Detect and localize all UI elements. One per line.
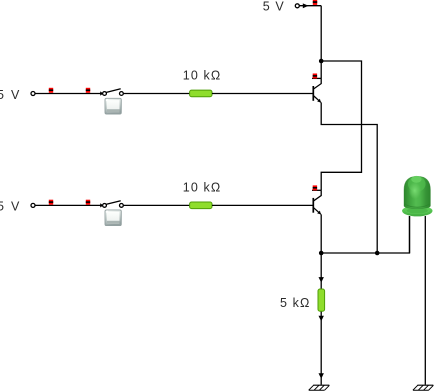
ground G1 bbox=[309, 385, 330, 390]
bottom rail wire bbox=[321, 216, 409, 253]
pin voltage indicator (red) B2 bbox=[86, 200, 90, 205]
Q1 collector pin stub bbox=[312, 77, 321, 79]
node junction bottom-left (dot) bbox=[319, 251, 324, 256]
switch S1 bbox=[103, 89, 124, 96]
wire: R1 to Q1 base bbox=[212, 93, 313, 95]
wire: top supply down to Q1 collector bbox=[320, 6, 322, 79]
ground G2 (LED cathode) bbox=[413, 385, 434, 390]
svg-text:5V: 5V bbox=[0, 200, 20, 214]
current arrow above ground G1 bbox=[319, 373, 324, 379]
pushbutton of S2 bbox=[105, 210, 121, 226]
current arrow into switch S2 bbox=[100, 203, 103, 207]
transistor Q1 (NPN) bbox=[313, 78, 321, 102]
wire: top supply to corner bbox=[300, 5, 322, 7]
pin voltage indicator (red) B1 bbox=[49, 200, 53, 205]
wire: Q1 emitter to Q2 branch rail bbox=[321, 102, 377, 253]
svg-text:10 kΩ: 10 kΩ bbox=[183, 69, 221, 83]
wire: Q2 emitter down to bottom rail bbox=[320, 214, 322, 253]
LED D1 (green) bbox=[402, 176, 432, 216]
terminal pin V2 bbox=[31, 203, 35, 207]
resistor R2 10k bbox=[190, 202, 212, 209]
current arrow on top supply wire bbox=[303, 3, 309, 8]
pushbutton of S1 bbox=[105, 98, 121, 114]
current arrow into switch S1 bbox=[100, 91, 103, 95]
node junction bottom-mid (dot) bbox=[375, 251, 380, 256]
svg-text:10 kΩ: 10 kΩ bbox=[183, 180, 221, 194]
wire: S2 to R2 bbox=[123, 204, 189, 206]
pin voltage indicator (red) A2 bbox=[86, 88, 90, 93]
wire: R2 to Q2 base bbox=[212, 204, 313, 206]
transistor Q2 (NPN) bbox=[313, 190, 321, 214]
node junction top (dot) bbox=[319, 59, 324, 64]
Q2 collector pin stub bbox=[312, 189, 321, 191]
svg-text:5 kΩ: 5 kΩ bbox=[280, 296, 310, 310]
current arrow below R3 bbox=[319, 316, 324, 322]
terminal pin V3 bbox=[295, 4, 299, 8]
resistor R3 5k bbox=[318, 289, 325, 311]
pin voltage indicator (red) on top supply wire bbox=[313, 0, 317, 5]
wire: junction down to R3 and ground bbox=[320, 253, 322, 385]
svg-text:5V: 5V bbox=[0, 88, 20, 102]
pin voltage indicator (red) A1 bbox=[49, 88, 53, 93]
wire: S1 to R1 bbox=[123, 93, 189, 95]
svg-text:5 V: 5 V bbox=[263, 0, 285, 14]
pin voltage indicator (red) on Q1 collector bbox=[313, 74, 317, 79]
wire: junction to Q2 collector (right, down, left, down) bbox=[321, 61, 361, 190]
switch S2 bbox=[103, 201, 124, 208]
LED D1 leads bbox=[410, 216, 426, 385]
wire: V1 to switch S1 bbox=[35, 93, 104, 95]
wire: V2 to switch S2 bbox=[35, 204, 104, 206]
resistor R1 10k bbox=[190, 90, 212, 97]
current arrow above R3 bbox=[319, 277, 324, 283]
terminal pin V1 bbox=[31, 92, 35, 96]
pin voltage indicator (red) on Q2 collector bbox=[313, 185, 317, 190]
